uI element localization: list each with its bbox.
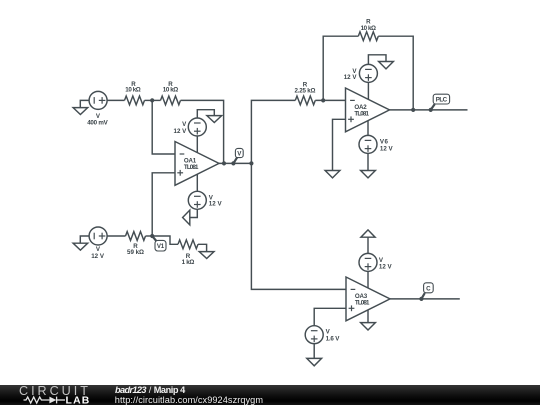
svg-text:10 kΩ: 10 kΩ: [125, 86, 140, 93]
svg-text:PLC: PLC: [436, 97, 448, 104]
wire node V1 to R6: [152, 236, 178, 244]
wire OA2 non-inverting input to ground: [333, 119, 346, 170]
flag V (OA1 output): [233, 148, 243, 163]
ground G2 (left of source V 12V): [73, 236, 89, 250]
svg-text:V: V: [182, 121, 187, 128]
flag V1: [152, 236, 166, 251]
svg-text:1.6 V: 1.6 V: [326, 335, 341, 342]
wire R2 to feedback corner: [181, 100, 224, 163]
wire source to R1: [107, 99, 124, 101]
junction dot branch node B: [249, 161, 253, 165]
svg-text:12 V: 12 V: [379, 264, 393, 271]
logo icon resistor+diode: [24, 397, 66, 404]
wire R5 to node V1: [146, 235, 153, 237]
op-amp OA3 TL081: [346, 277, 390, 321]
wire OA2 V- pin to VS5: [367, 121, 369, 135]
supply VS3 (V 12V below OA1): [188, 191, 206, 209]
wire VS3 to ground G5: [190, 209, 198, 217]
node V1 junction dot: [150, 234, 154, 238]
svg-text:TL081: TL081: [355, 299, 370, 306]
ground G8 (below VS5): [361, 171, 376, 178]
flag PLC (OA2 output): [431, 94, 450, 110]
wire R6 to ground: [198, 244, 207, 251]
op-amp OA2 TL081: [346, 88, 390, 132]
junction dot PLC flag attach: [429, 108, 433, 112]
svg-text:2.25 kΩ: 2.25 kΩ: [295, 87, 316, 94]
svg-text:12 V: 12 V: [380, 145, 394, 152]
junction dot OA2 output/feedback: [411, 108, 415, 112]
svg-text:V1: V1: [157, 243, 165, 250]
ground G5 (left-pointing, below VS3): [183, 210, 190, 225]
ground G3 (below R6): [199, 252, 214, 259]
wire VS2 to OA1 V+ pin: [196, 136, 198, 153]
supply VS4 (V 12V above OA2): [359, 64, 377, 82]
resistor R3 2.25 kOhm: [295, 96, 315, 105]
ground G10 (below VS7): [307, 358, 322, 365]
junction dot C flag attach: [419, 297, 423, 301]
wire source to R5: [107, 235, 125, 237]
node A junction dot: [150, 98, 154, 102]
svg-text:10 kΩ: 10 kΩ: [361, 25, 376, 32]
VCC up arrow (above VS6): [361, 230, 375, 254]
resistor R5 59 kOhm: [126, 232, 146, 241]
wire VS4 to OA2 V+ pin: [367, 82, 369, 99]
svg-text:1 kΩ: 1 kΩ: [182, 259, 195, 266]
svg-text:400 mV: 400 mV: [87, 119, 108, 126]
resistor R2 10 kOhm (feedback): [161, 96, 181, 105]
wire node A down to OA1 inverting input: [152, 100, 175, 154]
supply VS6 (V 12V above OA3): [359, 253, 377, 271]
resistor R1 10 kOhm: [125, 96, 145, 105]
wire OA3 output: [390, 298, 460, 300]
junction dot V flag attach: [231, 161, 235, 165]
resistor R6 1 kOhm: [178, 240, 198, 249]
wire OA3 V- pin to ground: [367, 310, 369, 323]
ground G4 (above OA1): [207, 116, 222, 123]
op-amp OA1 TL081: [175, 142, 219, 186]
resistor R4 10 kOhm (OA2 feedback): [358, 32, 378, 41]
voltage source V2s 12 V: [89, 227, 107, 245]
wire node B up and to R3: [251, 100, 295, 163]
svg-text:12 V: 12 V: [344, 74, 358, 81]
wire VS6 to OA3 V+ pin: [367, 271, 369, 288]
wire OA2 output: [390, 109, 468, 111]
supply VS2 (V 12V above OA1): [188, 118, 206, 136]
ground G7 (above right of OA2): [379, 62, 394, 69]
wire R4 to OA2 output junction: [378, 36, 413, 110]
supply VS5 V6 (12V below OA2): [359, 135, 377, 153]
wire R3 to OA2 inverting input: [315, 99, 345, 101]
svg-text:12 V: 12 V: [91, 253, 105, 260]
wire VS7 to ground G10: [313, 344, 315, 359]
wire OA3 non-inverting input to VS7: [314, 308, 346, 325]
voltage source V1s 400 mV: [89, 91, 107, 109]
junction dot OA1 output/feedback: [222, 161, 226, 165]
svg-text:TL081: TL081: [184, 164, 199, 171]
wire OA1 output: [219, 162, 251, 164]
flag C (OA3 output): [421, 283, 433, 299]
svg-text:10 kΩ: 10 kΩ: [163, 86, 178, 93]
svg-text:12 V: 12 V: [174, 128, 188, 135]
wire node B down to OA3 inverting input: [251, 163, 346, 289]
supply VS7 (V 1.6V): [305, 326, 323, 344]
svg-text:TL081: TL081: [354, 110, 369, 117]
OA2 feedback loop with R4: [323, 36, 358, 100]
wire VS4 to ground G7: [368, 55, 386, 65]
footer bar: [0, 385, 540, 405]
svg-text:12 V: 12 V: [209, 201, 223, 208]
junction dot feedback left: [321, 98, 325, 102]
svg-text:59 kΩ: 59 kΩ: [127, 249, 144, 256]
wire OA1 V- pin to VS3: [196, 175, 198, 192]
ground G1 (left of source V 400mV): [73, 100, 89, 114]
ground G9 (below OA3): [361, 323, 376, 330]
svg-text:V6: V6: [380, 138, 389, 145]
svg-text:C: C: [426, 285, 431, 292]
wire node V1 up to OA1 non-inverting input: [152, 173, 175, 236]
wire R1 to node A: [145, 99, 161, 101]
wire VS5 to ground G8: [367, 153, 369, 170]
wire VS2 to ground G4: [197, 110, 214, 118]
ground G6 (below OA2 + input): [325, 171, 340, 178]
